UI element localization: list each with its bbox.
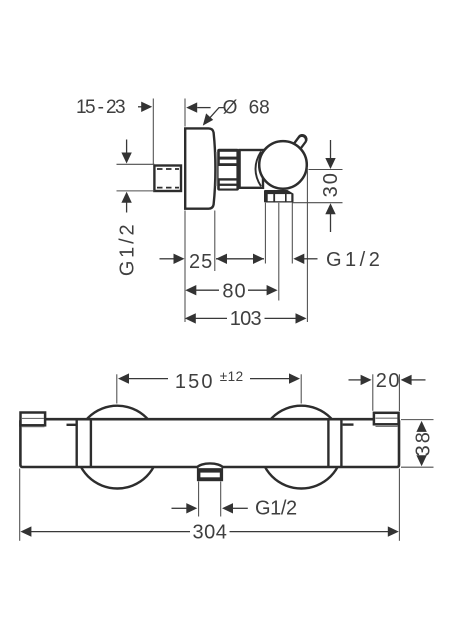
left handle circle — [76, 406, 159, 489]
svg-text:30: 30 — [320, 171, 342, 197]
svg-text:150: 150 — [175, 371, 215, 393]
right handle circle — [260, 406, 343, 489]
escutcheon rim contour — [215, 152, 217, 186]
svg-text:G1/2: G1/2 — [255, 498, 297, 520]
dimension 150 extensions — [116, 374, 118, 403]
dimension 38 arrows — [416, 421, 426, 432]
G1/2 arrow (hose outlet) — [293, 254, 304, 264]
svg-text:80: 80 — [222, 280, 246, 302]
knurled ring — [217, 149, 239, 191]
leader line for diameter 68 — [208, 108, 225, 121]
outlet dome — [197, 463, 224, 468]
dimension 20 arrows — [349, 379, 362, 381]
cylinder contour arc — [256, 152, 262, 187]
dimension 304 line — [20, 526, 31, 536]
thread dashes in supply stub — [157, 168, 179, 170]
dimension 15-23 right arrow — [197, 107, 210, 109]
dimension 30 top extension — [309, 169, 343, 171]
hose nut (top view) — [264, 190, 294, 203]
handle lever stub — [293, 139, 303, 152]
handle circle — [259, 141, 307, 189]
extension line A (wall face) — [152, 99, 154, 165]
svg-text:68: 68 — [249, 97, 270, 118]
left vertical dimension extensions (G1/2 supply) — [117, 163, 155, 165]
dimension 150 line — [118, 373, 129, 383]
svg-text:304: 304 — [193, 521, 228, 543]
svg-text:20: 20 — [376, 370, 401, 392]
dimension 38 extensions — [401, 419, 434, 421]
middle double arrow segment — [216, 258, 264, 260]
right union block — [374, 413, 399, 425]
outlet extension lines — [198, 482, 200, 517]
extension line handle front — [306, 167, 308, 322]
svg-text:G1/2: G1/2 — [117, 222, 139, 277]
svg-text:±12: ±12 — [220, 369, 244, 384]
dimension 30 top arrow — [330, 140, 332, 159]
dimension 304 extensions — [19, 469, 21, 541]
svg-text:G1/2: G1/2 — [326, 249, 383, 271]
svg-text:103: 103 — [230, 308, 262, 330]
valve body — [240, 150, 263, 188]
left vertical dimension arrows — [126, 140, 128, 154]
escutcheon (wall plate, side view) — [185, 128, 215, 208]
dimension 30 bottom extension — [292, 202, 343, 204]
svg-text:38: 38 — [412, 430, 434, 456]
dimension 30 bottom arrow — [330, 214, 332, 232]
left lever tick — [67, 424, 76, 426]
svg-text:25: 25 — [189, 251, 213, 273]
extension line B (escutcheon face, upper) — [184, 99, 186, 127]
bar body — [20, 419, 399, 467]
right handle groove lines — [327, 421, 329, 467]
dimension 103 — [185, 313, 196, 323]
dimension line y=258.8: 25 left arrow — [160, 258, 175, 260]
dimension 15-23 left arrow — [138, 106, 142, 108]
left handle groove lines — [75, 421, 77, 467]
svg-text:15 - 23: 15 - 23 — [76, 97, 125, 118]
left union block — [21, 413, 46, 426]
dimension 80 — [185, 285, 196, 295]
extension line outlet axis — [278, 203, 280, 301]
outlet nut — [197, 468, 223, 481]
supply stub (wall connection) — [154, 166, 181, 192]
svg-text:Ø: Ø — [223, 97, 238, 118]
extension line below nut right — [291, 203, 293, 264]
G1/2 outlet dimension (bottom) — [172, 507, 187, 509]
extension line B (escutcheon face, lower) — [184, 211, 186, 323]
right lever tick — [343, 423, 354, 425]
escutcheon rear extension line — [214, 211, 216, 272]
dimension 20 extensions — [372, 374, 374, 411]
extension line below nut left — [264, 203, 266, 264]
